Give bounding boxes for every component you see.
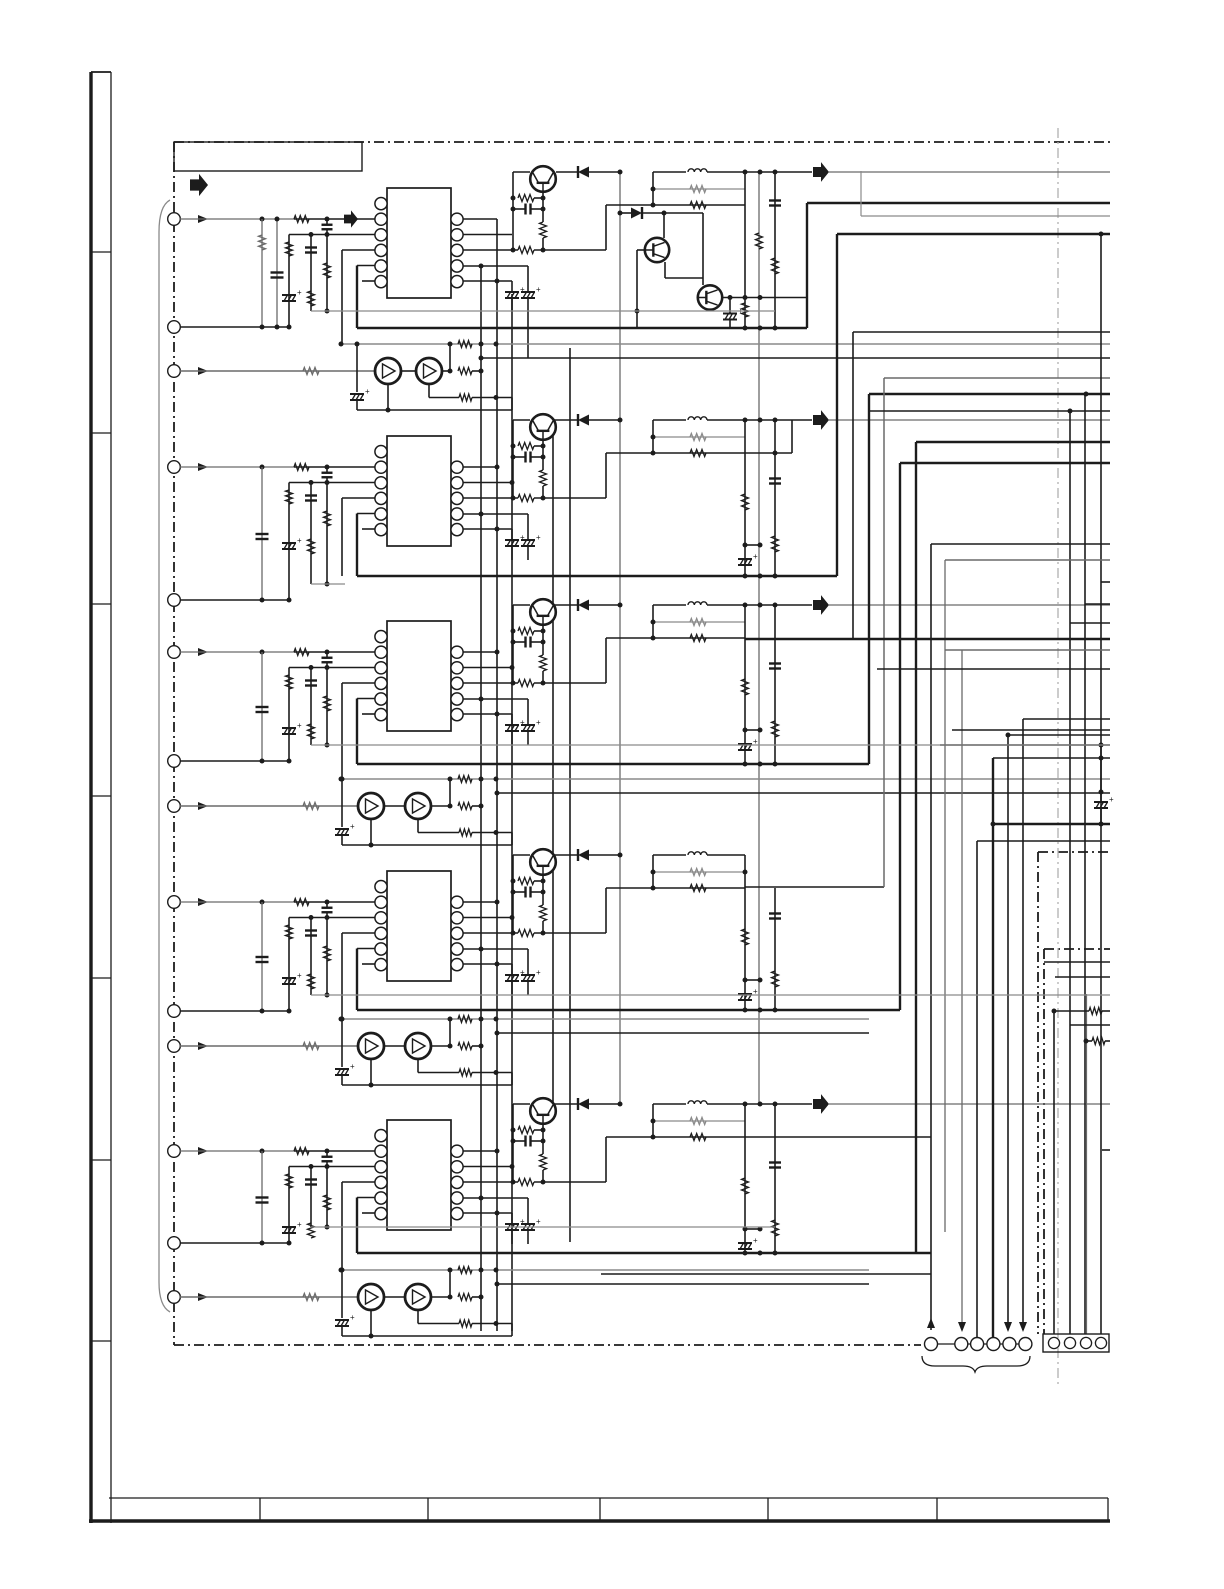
svg-text:+: + [753, 552, 758, 561]
svg-text:+: + [297, 288, 302, 297]
svg-text:+: + [536, 718, 541, 727]
svg-text:+: + [350, 1313, 355, 1322]
svg-text:+: + [350, 822, 355, 831]
svg-text:+: + [536, 1217, 541, 1226]
svg-text:+: + [297, 971, 302, 980]
svg-text:+: + [536, 285, 541, 294]
svg-text:+: + [753, 1236, 758, 1245]
svg-text:+: + [297, 1220, 302, 1229]
svg-text:+: + [1109, 795, 1114, 804]
svg-text:+: + [365, 387, 370, 396]
svg-text:+: + [536, 968, 541, 977]
svg-text:+: + [297, 721, 302, 730]
svg-text:+: + [536, 533, 541, 542]
svg-text:+: + [297, 536, 302, 545]
svg-text:+: + [350, 1062, 355, 1071]
